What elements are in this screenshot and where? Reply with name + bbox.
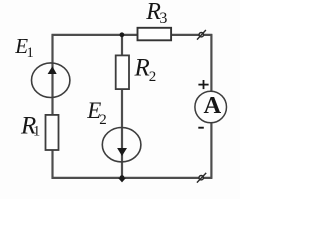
- wire top left horizontal: [52, 34, 138, 36]
- svg-text:1: 1: [27, 45, 34, 61]
- wire bottom horizontal: [52, 177, 213, 179]
- ammeter minus mark: [198, 127, 204, 129]
- resistor R3: [138, 28, 172, 41]
- svg-text:2: 2: [99, 112, 107, 128]
- terminal bottom right: [197, 173, 206, 183]
- wire left vertical below R1: [51, 150, 53, 179]
- voltage source E2: [102, 128, 141, 162]
- resistor R2: [116, 55, 129, 89]
- svg-text:3: 3: [159, 10, 167, 27]
- E2 arrow: [117, 148, 127, 156]
- wire middle branch R2 to E2 to bottom node: [121, 89, 123, 178]
- wire right vertical below ammeter: [210, 123, 212, 179]
- wire top right horizontal (R3 to terminal to corner): [171, 34, 212, 36]
- node junction bottom (E2 branch to bottom wire): [120, 175, 125, 180]
- wire left vertical branch: [51, 34, 53, 115]
- resistor R1: [46, 115, 59, 150]
- node junction top (wire to R2 branch): [120, 32, 125, 37]
- svg-text:1: 1: [33, 124, 40, 140]
- svg-text:2: 2: [149, 69, 157, 85]
- svg-text:A: A: [204, 92, 222, 119]
- ammeter U1: [195, 91, 227, 123]
- voltage source E1: [32, 63, 70, 98]
- terminal top right: [197, 30, 206, 40]
- E1 arrow: [48, 66, 57, 74]
- svg-text:R: R: [134, 55, 150, 82]
- wire right vertical above ammeter: [210, 34, 212, 91]
- ammeter plus mark: [198, 80, 208, 89]
- wire middle branch junction to R2: [121, 35, 123, 56]
